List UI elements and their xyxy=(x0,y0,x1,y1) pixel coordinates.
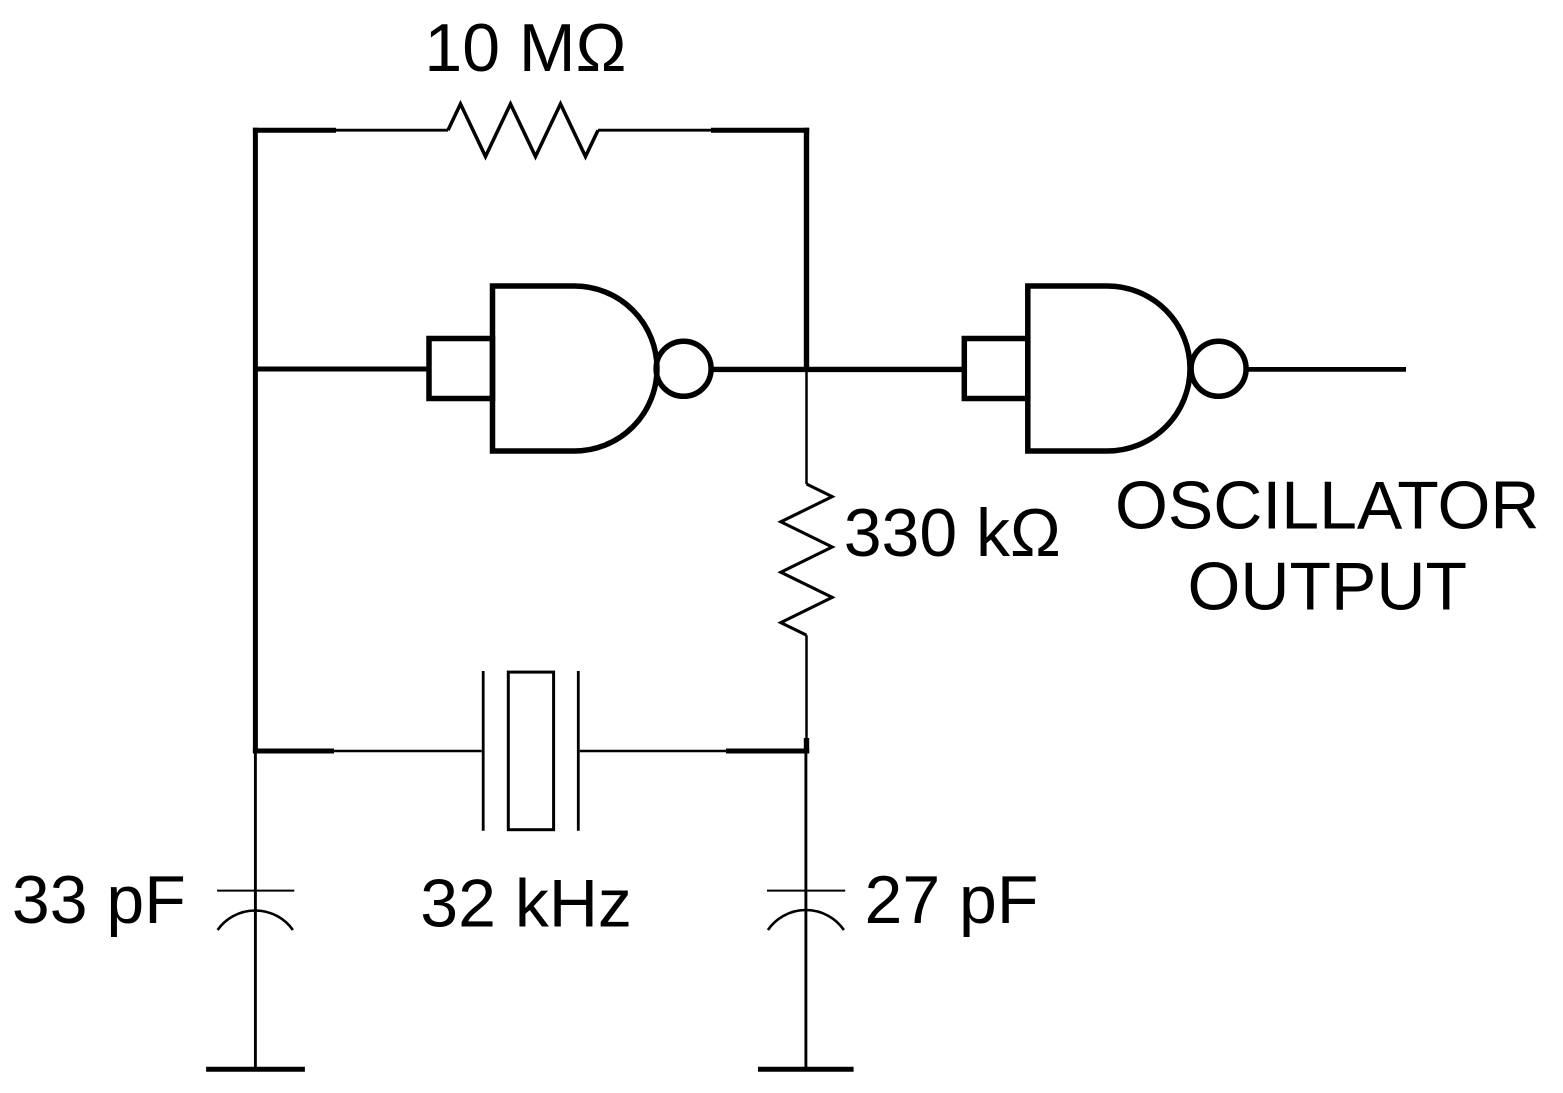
wire bottom-right stub xyxy=(726,749,809,754)
svg-text:27 pF: 27 pF xyxy=(865,862,1039,938)
resistor R1 10 M lead right xyxy=(598,129,711,132)
nand gate U2 body xyxy=(1028,286,1190,451)
nand gate U1 input box xyxy=(429,339,493,399)
svg-text:32 kHz: 32 kHz xyxy=(420,866,632,942)
capacitor C1 bottom plate arc xyxy=(218,911,293,930)
resistor R2 330 k zigzag xyxy=(781,484,832,635)
crystal Y1 plate right xyxy=(577,671,580,831)
capacitor C2 lead xyxy=(804,751,807,1067)
nand gate U1 body xyxy=(493,286,657,451)
capacitor C1 lead xyxy=(254,751,257,1067)
resistor R1 10 M zigzag xyxy=(448,104,598,157)
wire gate1 output to gate2 input xyxy=(712,367,967,372)
svg-text:OSCILLATOR: OSCILLATOR xyxy=(1115,468,1540,544)
ground right xyxy=(758,1067,854,1072)
svg-text:33 pF: 33 pF xyxy=(12,862,186,938)
wire gate1 input xyxy=(255,367,431,372)
wire bottom-left stub xyxy=(253,749,334,754)
svg-text:330 kΩ: 330 kΩ xyxy=(844,495,1061,571)
wire top-right stub xyxy=(711,128,809,133)
resistor R1 10 M lead left xyxy=(336,129,448,132)
wire right vertical upper xyxy=(804,128,809,372)
nand gate U1 bubble xyxy=(656,341,711,396)
wire left vertical xyxy=(253,128,258,754)
capacitor C1 top plate xyxy=(217,890,294,892)
crystal Y1 lead right xyxy=(580,750,726,753)
svg-text:OUTPUT: OUTPUT xyxy=(1188,549,1468,625)
crystal Y1 plate left xyxy=(482,671,485,831)
capacitor C2 top plate xyxy=(767,890,845,892)
resistor R2 330 k lead top xyxy=(805,369,808,484)
resistor R2 330 k lead bottom xyxy=(805,635,808,740)
ground left xyxy=(206,1067,305,1072)
svg-text:10 MΩ: 10 MΩ xyxy=(424,10,626,86)
nand gate U2 input box xyxy=(964,339,1028,399)
crystal Y1 body rect xyxy=(508,672,553,830)
wire gate2 output xyxy=(1246,367,1406,372)
nand gate U2 bubble xyxy=(1191,341,1246,396)
wire top-left stub xyxy=(253,128,336,133)
capacitor C2 bottom plate arc xyxy=(768,910,844,930)
wire right vertical bottom stub xyxy=(804,738,809,754)
crystal Y1 lead left xyxy=(334,750,482,753)
